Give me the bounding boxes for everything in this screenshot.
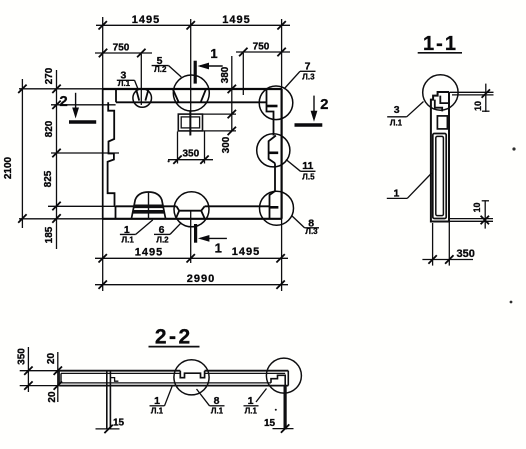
svg-text:Л.3: Л.3 xyxy=(302,73,315,82)
wire ext line bottom 10 a xyxy=(449,218,494,220)
svg-text:Л.3: Л.3 xyxy=(305,227,318,236)
svg-text:Л.1: Л.1 xyxy=(245,406,258,415)
dome stripe 2 xyxy=(133,210,165,214)
section mark 2 right: arrow xyxy=(313,96,315,117)
svg-text:2: 2 xyxy=(59,93,67,110)
speck dot right margin xyxy=(512,147,515,150)
svg-text:350: 350 xyxy=(17,348,28,365)
svg-text:2990: 2990 xyxy=(187,273,215,285)
panel bottom flange inner line left part xyxy=(116,205,177,207)
opening rectangle inner xyxy=(181,117,199,128)
detail circle C11 xyxy=(257,134,290,167)
wire dim line 20 vertical 2-2 xyxy=(57,352,59,402)
band inner top line xyxy=(61,372,285,374)
svg-text:185: 185 xyxy=(44,226,55,243)
detail circle right 2-2 xyxy=(266,358,301,393)
panel top flange inner line xyxy=(116,101,267,103)
svg-text:1: 1 xyxy=(215,241,222,256)
title 1-1 underline xyxy=(418,52,462,54)
section mark 1 bottom: bar xyxy=(194,224,197,243)
wire vertical dim line 380/300 xyxy=(231,56,233,132)
svg-text:1: 1 xyxy=(210,46,217,61)
band right end cap xyxy=(287,371,289,386)
svg-text:820: 820 xyxy=(44,120,55,137)
wire ext vertical left of 350 xyxy=(177,132,179,164)
svg-text:10: 10 xyxy=(473,101,483,111)
svg-text:1495: 1495 xyxy=(232,246,260,258)
svg-text:3: 3 xyxy=(394,104,400,116)
wire dim 15 right leg xyxy=(273,428,294,430)
svg-text:1495: 1495 xyxy=(222,14,250,26)
wire ext line left bottom xyxy=(20,385,60,387)
wire dimension line 750 right xyxy=(236,51,290,53)
wire dim vertical top 10 xyxy=(485,84,487,112)
wire extension line x=141.3 (750 tick to notch) xyxy=(140,54,142,105)
svg-text:Л.2: Л.2 xyxy=(154,65,167,74)
wire left row extension y=218.5 xyxy=(19,218,103,220)
wire extension line mid x=190.7 upper xyxy=(190,19,192,135)
top hook step a xyxy=(440,96,449,104)
section mark 1 bottom: arrow xyxy=(200,237,227,239)
panel right inner edge upper (C7 to C11) xyxy=(267,89,274,135)
lifting recess dome outline xyxy=(131,192,165,219)
keyway groove with tongue (middle) xyxy=(180,371,204,378)
band outer top line xyxy=(59,370,288,372)
panel top-left corner stub xyxy=(115,90,117,103)
svg-text:1-1: 1-1 xyxy=(423,33,458,55)
svg-text:1: 1 xyxy=(393,187,399,199)
wire ext line y=114 to 380/300 dim xyxy=(203,113,237,115)
bottom keyway trapezoid at x=191 xyxy=(176,206,205,219)
notch stub in C7 xyxy=(267,105,278,108)
svg-text:2-2: 2-2 xyxy=(155,326,193,349)
core void outer rect xyxy=(433,134,446,219)
right leg verticals xyxy=(284,386,286,430)
wire extension line mid x=190.7 lower xyxy=(190,211,192,263)
wire ext line y=131 to 300 dim xyxy=(203,130,237,132)
svg-text:8: 8 xyxy=(214,395,220,407)
detail circle C8 xyxy=(260,191,294,225)
svg-text:15: 15 xyxy=(113,417,125,428)
wire ext vertical right of 350 xyxy=(204,132,206,164)
svg-text:1: 1 xyxy=(248,395,254,407)
svg-text:270: 270 xyxy=(44,67,55,84)
wire dim line 350 bottom xyxy=(422,259,473,261)
svg-text:1495: 1495 xyxy=(135,247,163,259)
panel bottom outer edge xyxy=(103,218,282,220)
svg-text:350: 350 xyxy=(182,149,199,160)
notch stub in C11 xyxy=(269,152,279,155)
section mark 2 left: arrow xyxy=(75,93,77,114)
svg-text:10: 10 xyxy=(472,202,482,212)
wire left row extension y=153 xyxy=(51,152,119,154)
detail circle big top keyway (5/L2) xyxy=(173,75,209,111)
wire extension line x=243.3 (750 tick to top edge) xyxy=(242,53,244,95)
svg-text:Л.1: Л.1 xyxy=(390,119,403,128)
svg-text:Л.1: Л.1 xyxy=(118,79,131,88)
wire dim line 350 vertical 2-2 xyxy=(27,347,29,392)
svg-text:750: 750 xyxy=(113,43,130,54)
svg-text:11: 11 xyxy=(302,160,313,172)
detail circle on 1-1 top xyxy=(423,75,458,110)
svg-text:2100: 2100 xyxy=(3,156,14,179)
wire dim line 350 under rect xyxy=(168,159,213,161)
wire ext line top 10 a xyxy=(450,91,494,93)
svg-text:15: 15 xyxy=(264,418,276,429)
title 2-2 underline xyxy=(149,346,200,348)
panel right inner edge (C11 to C8) xyxy=(270,163,276,219)
wire left row extension y=206 xyxy=(48,205,116,207)
svg-text:1495: 1495 xyxy=(132,14,160,26)
wire bottom dimension line 2990 xyxy=(95,284,288,286)
panel right outer edge xyxy=(281,89,283,219)
speck dot 2-2 xyxy=(275,409,277,411)
small notch wedge at x=143 xyxy=(136,90,148,101)
panel left keyed inner edge profile xyxy=(108,102,116,219)
wire left row extension y=104.8 xyxy=(51,104,116,106)
section mark 1 top: arrow xyxy=(200,65,223,67)
left leg verticals xyxy=(107,371,111,429)
opening centerline vertical xyxy=(189,112,191,136)
wire bottom dimension line 1495+1495 xyxy=(95,257,288,259)
wire top dimension line 1495+1495 xyxy=(96,24,290,26)
wire dim vertical bottom 10 xyxy=(484,200,486,228)
wire ext line top 10 b xyxy=(452,94,494,96)
dome centerline xyxy=(148,193,150,220)
wire ext line left top xyxy=(20,370,60,372)
wire dimension line 750 left xyxy=(95,52,152,54)
band outer bottom line xyxy=(59,385,288,387)
wire left outer vertical dimension line 2100 xyxy=(21,79,23,228)
wire ext vertical 350 left xyxy=(432,223,434,266)
notch stub in C8 xyxy=(270,206,279,209)
top keyway trapezoid at x=191 xyxy=(173,90,206,102)
svg-text:750: 750 xyxy=(253,42,270,53)
opening rectangle 350x300 outer xyxy=(178,114,202,131)
panel top outer edge xyxy=(103,88,282,90)
svg-text:300: 300 xyxy=(221,136,232,153)
detail circle C7 xyxy=(259,86,293,120)
dome stripe 1 xyxy=(134,205,164,209)
band inner bottom line xyxy=(61,382,271,384)
svg-text:1: 1 xyxy=(154,395,160,407)
panel bottom flange inner line right part xyxy=(205,205,270,207)
svg-text:825: 825 xyxy=(43,170,54,187)
section mark 1 top: bar xyxy=(194,61,197,84)
wire dim 15 left leg xyxy=(96,428,120,430)
section mark 2 right: bar xyxy=(295,123,323,126)
section panel outer profile xyxy=(431,92,449,222)
wire extension line right x=281.6 xyxy=(281,19,283,291)
band left end cap xyxy=(59,371,61,386)
speck dot xyxy=(168,160,170,162)
top hook step b xyxy=(435,100,442,112)
core void inner rect xyxy=(436,136,444,215)
detail circle bottom keyway xyxy=(174,192,209,227)
wire ext line bottom 10 b xyxy=(449,220,494,222)
svg-text:Л.1: Л.1 xyxy=(122,235,135,244)
wire left inner vertical dimension line xyxy=(56,70,58,249)
upper cavity block xyxy=(437,116,447,129)
svg-text:20: 20 xyxy=(46,353,57,365)
svg-text:350: 350 xyxy=(457,248,475,260)
svg-text:Л.1: Л.1 xyxy=(211,406,224,415)
svg-text:Л.2: Л.2 xyxy=(156,235,169,244)
section mark 2 left: bar xyxy=(69,120,96,123)
notch keyway C11 profile xyxy=(269,136,276,164)
svg-text:Л.5: Л.5 xyxy=(302,172,315,181)
svg-text:Л.1: Л.1 xyxy=(151,406,164,415)
wire left row extension y=88.8 xyxy=(19,88,103,90)
svg-text:380: 380 xyxy=(220,66,231,83)
right end hook step xyxy=(271,375,285,385)
wire extension line left x=102.7 full height xyxy=(102,17,104,291)
left leg joint step xyxy=(110,378,118,382)
wire ext vertical 350 right xyxy=(448,222,450,266)
svg-text:20: 20 xyxy=(47,391,58,403)
panel left outer face thick segment xyxy=(102,89,104,219)
detail circle small (3/L1) xyxy=(133,89,152,108)
svg-text:2: 2 xyxy=(320,96,328,113)
detail circle middle 2-2 xyxy=(174,360,209,395)
